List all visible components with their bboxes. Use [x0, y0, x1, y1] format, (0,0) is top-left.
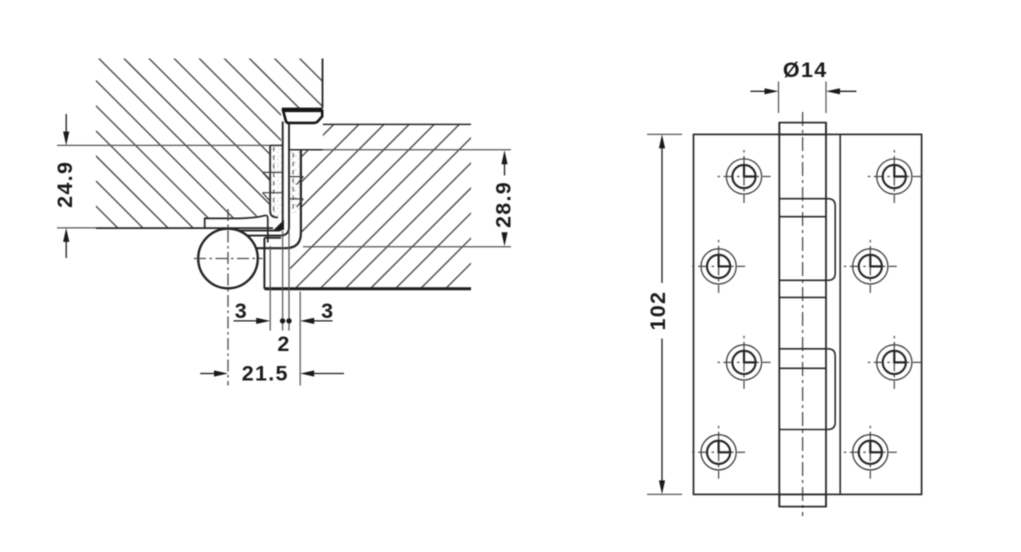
door rebate step — [289, 149, 323, 151]
frame bottom edge — [96, 227, 273, 229]
door bottom edge — [264, 287, 471, 290]
frame leaf mortise plateau — [205, 215, 268, 242]
extension line 28.9 bottom (through door) — [303, 246, 511, 248]
svg-text:Ø14: Ø14 — [783, 58, 828, 82]
screw hole 5 (top right) — [868, 150, 921, 203]
right screw strip — [290, 152, 300, 213]
door section hatching — [290, 0, 480, 469]
extension line 28.9 top (through door) — [323, 149, 511, 151]
screw hole 3 (mid-lower left) — [718, 336, 771, 389]
extension line 24.9 bottom stub — [57, 227, 96, 229]
screw hole 7 (mid-lower right) — [868, 336, 921, 389]
door leaf inner wall — [232, 122, 283, 231]
dim 28.9 — [504, 163, 506, 176]
knuckle centerlines — [194, 258, 263, 260]
dim Ø14 — [778, 82, 780, 114]
frame section hatching — [80, 0, 340, 475]
door bottom-left corner edge — [263, 238, 265, 289]
screw hole 6 (mid-upper right) — [844, 240, 897, 293]
svg-text:28.9: 28.9 — [492, 181, 516, 228]
knuckle side walls — [778, 123, 780, 507]
door leaf outer wall — [236, 122, 289, 236]
door stop seal piece — [283, 111, 322, 123]
svg-text:2: 2 — [277, 332, 290, 356]
corner wedge fill — [274, 220, 285, 230]
bearing sleeve 2 — [779, 349, 835, 430]
knuckle caps — [779, 123, 826, 135]
dim 24.9 — [65, 114, 67, 133]
hinge plate — [694, 134, 922, 494]
svg-text:24.9: 24.9 — [53, 161, 77, 208]
channel inner bottom — [264, 237, 281, 239]
svg-text:21.5: 21.5 — [242, 361, 289, 385]
knuckle divisions — [779, 216, 826, 218]
dim 102 — [647, 133, 682, 135]
bearing sleeve 1 — [779, 199, 835, 281]
dim 21.5 — [200, 373, 215, 375]
right strip thread ticks — [289, 177, 304, 207]
extension line 24.9 top (through frame) — [57, 144, 270, 146]
svg-text:3: 3 — [235, 299, 248, 323]
left strip thread ticks — [263, 172, 283, 200]
svg-text:102: 102 — [646, 291, 670, 331]
frame right edge — [322, 59, 324, 109]
svg-text:3: 3 — [321, 299, 334, 323]
screw hole 1 (top left) — [718, 150, 771, 203]
right leaf bend line — [839, 134, 841, 494]
screw hole 4 (bottom left) — [692, 426, 745, 479]
dims 3 / 2 / 3 — [269, 246, 271, 331]
knuckle circle — [198, 229, 258, 289]
frame leaf channel bottom + door face — [256, 150, 301, 248]
door top edge — [323, 123, 471, 125]
frame mortise face — [270, 145, 278, 217]
screw hole 2 (mid-upper left) — [692, 240, 745, 293]
screw hole 8 (bottom right) — [844, 426, 897, 479]
pin centerline — [802, 112, 804, 516]
left screw strip — [271, 146, 282, 217]
